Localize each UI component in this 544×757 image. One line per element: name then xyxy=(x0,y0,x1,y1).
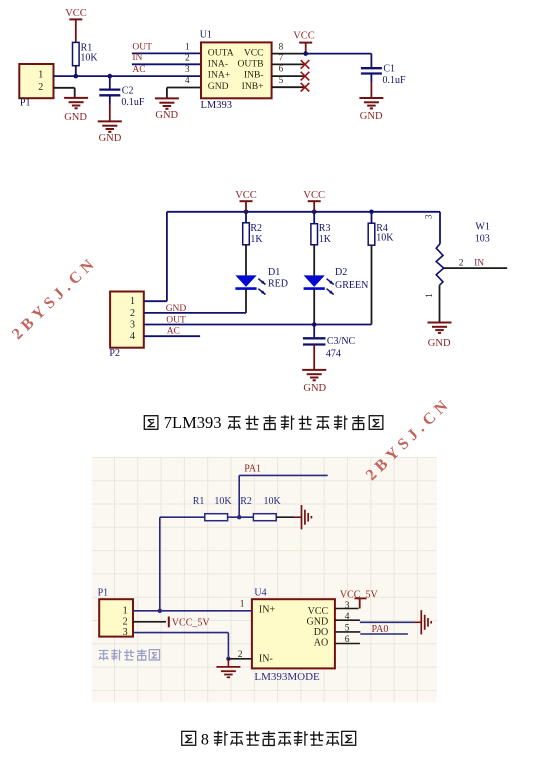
svg-text:GND: GND xyxy=(208,81,229,92)
svg-text:10K: 10K xyxy=(376,233,394,244)
svg-text:1: 1 xyxy=(130,296,135,307)
svg-text:AO: AO xyxy=(314,638,328,649)
svg-text:3: 3 xyxy=(345,601,350,611)
svg-text:GND: GND xyxy=(307,616,329,627)
svg-text:1K: 1K xyxy=(250,234,263,245)
svg-text:INA+: INA+ xyxy=(208,70,230,81)
svg-text:U1: U1 xyxy=(200,30,212,41)
svg-text:LM393: LM393 xyxy=(201,100,233,111)
svg-text:10K: 10K xyxy=(264,496,282,507)
svg-text:1K: 1K xyxy=(319,234,332,245)
svg-text:GND: GND xyxy=(428,338,451,349)
svg-text:8: 8 xyxy=(279,42,284,52)
svg-text:IN+: IN+ xyxy=(259,605,276,616)
svg-text:INB-: INB- xyxy=(244,70,264,81)
svg-text:GND: GND xyxy=(303,383,326,394)
svg-text:U4: U4 xyxy=(254,588,266,599)
svg-text:8: 8 xyxy=(201,731,209,748)
svg-text:OUTA: OUTA xyxy=(208,47,234,58)
svg-text:2: 2 xyxy=(459,258,464,268)
svg-text:VCC: VCC xyxy=(65,8,87,19)
svg-text:R3: R3 xyxy=(319,223,331,234)
svg-text:10K: 10K xyxy=(214,496,232,507)
svg-text:3: 3 xyxy=(424,214,434,219)
svg-text:R1: R1 xyxy=(193,496,205,507)
svg-text:GND: GND xyxy=(99,133,122,144)
svg-text:2: 2 xyxy=(238,650,243,660)
svg-text:1: 1 xyxy=(38,70,43,81)
svg-text:W1: W1 xyxy=(475,222,489,233)
svg-text:AC: AC xyxy=(132,65,145,75)
svg-text:C2: C2 xyxy=(122,86,134,97)
svg-text:2: 2 xyxy=(123,616,128,627)
svg-text:474: 474 xyxy=(326,348,341,359)
svg-text:C3/NC: C3/NC xyxy=(327,336,356,347)
svg-text:DO: DO xyxy=(314,627,328,638)
svg-text:7LM393: 7LM393 xyxy=(164,413,222,432)
svg-text:GREEN: GREEN xyxy=(335,280,368,291)
svg-text:1: 1 xyxy=(123,606,128,617)
svg-text:VCC: VCC xyxy=(303,190,325,201)
svg-text:2BYSJ.CN: 2BYSJ.CN xyxy=(9,254,101,343)
svg-text:D2: D2 xyxy=(335,267,347,278)
svg-text:IN-: IN- xyxy=(259,653,273,664)
svg-text:INB+: INB+ xyxy=(242,81,264,92)
svg-text:1: 1 xyxy=(185,42,190,52)
svg-text:P1: P1 xyxy=(98,588,109,599)
svg-text:OUTB: OUTB xyxy=(237,58,263,69)
svg-text:VCC_5V: VCC_5V xyxy=(172,617,211,628)
svg-text:4: 4 xyxy=(185,75,190,85)
svg-text:1: 1 xyxy=(240,600,245,610)
svg-text:AC: AC xyxy=(167,327,180,337)
svg-text:R2: R2 xyxy=(250,223,262,234)
svg-text:RED: RED xyxy=(268,278,288,289)
svg-text:C1: C1 xyxy=(383,64,395,75)
svg-text:IN: IN xyxy=(132,53,142,63)
svg-text:3: 3 xyxy=(185,64,190,74)
svg-text:VCC: VCC xyxy=(308,606,329,617)
svg-text:VCC: VCC xyxy=(293,31,315,42)
svg-text:R2: R2 xyxy=(240,496,252,507)
svg-text:GND: GND xyxy=(360,111,383,122)
svg-text:INA-: INA- xyxy=(208,58,228,69)
svg-text:VCC: VCC xyxy=(244,47,264,58)
svg-text:D1: D1 xyxy=(268,267,280,278)
svg-text:10K: 10K xyxy=(80,52,98,63)
svg-text:3: 3 xyxy=(123,627,128,638)
svg-text:OUT: OUT xyxy=(132,42,152,52)
svg-text:P2: P2 xyxy=(109,348,120,359)
svg-text:4: 4 xyxy=(130,331,135,342)
svg-text:0.1uF: 0.1uF xyxy=(383,75,407,86)
svg-text:GND: GND xyxy=(155,110,178,121)
svg-text:LM393MODE: LM393MODE xyxy=(254,671,320,683)
svg-text:PA1: PA1 xyxy=(244,464,261,475)
svg-text:3: 3 xyxy=(130,320,135,331)
svg-text:P1: P1 xyxy=(20,97,31,108)
svg-text:GND: GND xyxy=(64,112,87,123)
svg-text:0.1uF: 0.1uF xyxy=(121,97,144,108)
svg-text:103: 103 xyxy=(475,234,490,245)
svg-text:2: 2 xyxy=(38,82,43,93)
svg-text:PA0: PA0 xyxy=(372,624,389,635)
svg-text:IN: IN xyxy=(474,258,484,268)
svg-text:VCC: VCC xyxy=(235,190,257,201)
svg-text:1: 1 xyxy=(424,293,434,298)
svg-text:2: 2 xyxy=(185,53,190,63)
svg-text:2: 2 xyxy=(130,308,135,319)
